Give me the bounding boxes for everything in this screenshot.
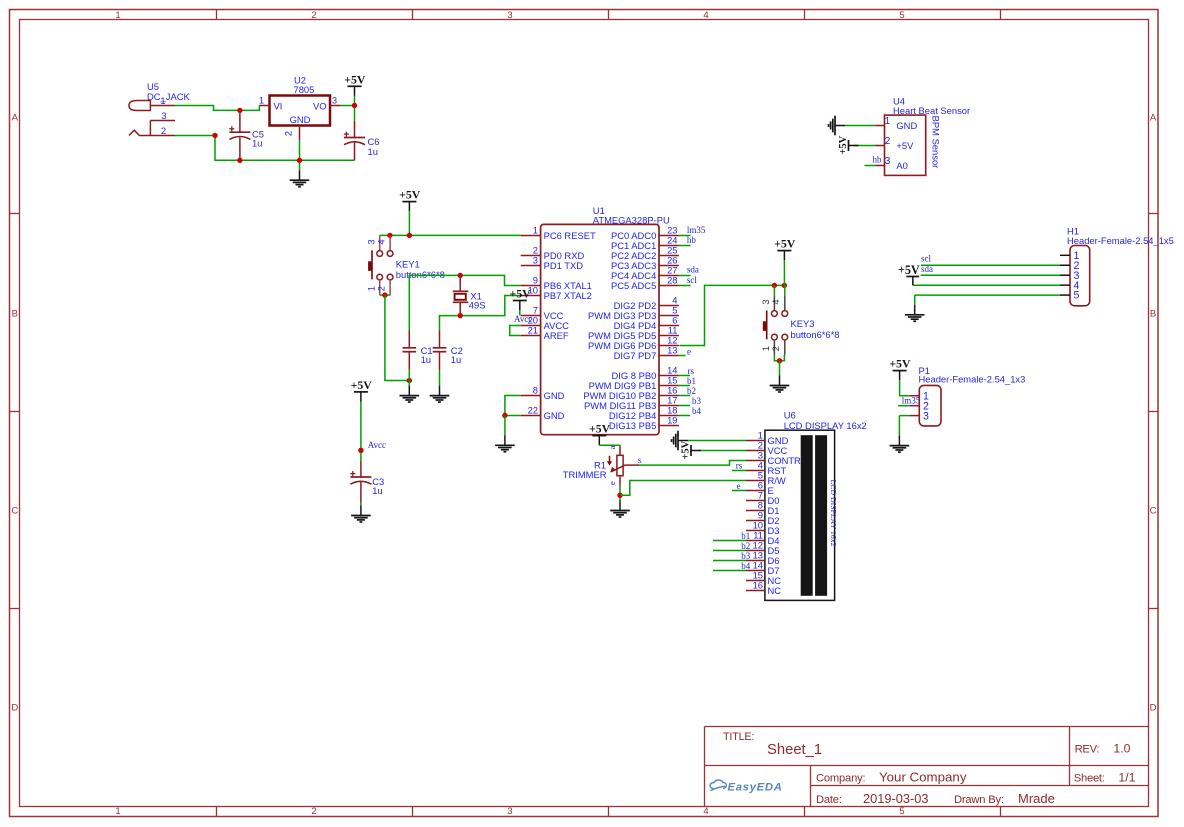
svg-text:lm35: lm35 xyxy=(687,225,706,235)
svg-text:b4: b4 xyxy=(692,406,702,416)
svg-text:+5V: +5V xyxy=(680,440,691,459)
svg-text:b4: b4 xyxy=(741,561,751,571)
svg-text:5: 5 xyxy=(1073,290,1079,302)
svg-text:5: 5 xyxy=(899,10,904,21)
svg-text:49S: 49S xyxy=(469,300,486,311)
svg-text:2: 2 xyxy=(311,10,316,21)
svg-text:sda: sda xyxy=(687,265,699,275)
svg-text:Mrade: Mrade xyxy=(1018,791,1055,806)
svg-text:13: 13 xyxy=(667,345,677,356)
svg-text:NC: NC xyxy=(768,585,782,596)
svg-text:hb: hb xyxy=(687,235,697,245)
svg-text:EasyEDA: EasyEDA xyxy=(728,782,783,794)
svg-text:button6*6*8: button6*6*8 xyxy=(791,329,840,340)
svg-text:e: e xyxy=(737,481,741,491)
svg-text:b2: b2 xyxy=(741,541,750,551)
svg-text:1u: 1u xyxy=(252,138,262,149)
svg-text:b1: b1 xyxy=(741,531,750,541)
svg-text:A: A xyxy=(12,113,19,124)
svg-text:b2: b2 xyxy=(687,386,696,396)
svg-text:3: 3 xyxy=(885,156,891,167)
svg-text:3: 3 xyxy=(507,10,512,21)
svg-text:LCD DISPLAY 16x2: LCD DISPLAY 16x2 xyxy=(829,479,838,546)
svg-text:3: 3 xyxy=(507,806,512,817)
svg-text:Header-Female-2.54_1x5: Header-Female-2.54_1x5 xyxy=(1067,235,1174,246)
svg-text:Drawn By:: Drawn By: xyxy=(954,794,1004,806)
svg-text:1.0: 1.0 xyxy=(1113,742,1130,756)
svg-text:+5V: +5V xyxy=(399,188,421,202)
svg-text:scl: scl xyxy=(921,254,931,264)
svg-text:Date:: Date: xyxy=(816,794,842,806)
svg-text:DIG13 PB5: DIG13 PB5 xyxy=(609,420,656,431)
svg-text:+5V: +5V xyxy=(510,287,532,301)
svg-text:1: 1 xyxy=(160,95,165,106)
svg-text:21: 21 xyxy=(528,325,538,336)
svg-text:C: C xyxy=(11,506,18,517)
svg-text:D: D xyxy=(11,703,18,714)
svg-text:22: 22 xyxy=(528,405,538,416)
svg-text:TRIMMER: TRIMMER xyxy=(563,469,607,480)
svg-text:1/1: 1/1 xyxy=(1118,771,1135,785)
svg-text:sda: sda xyxy=(921,264,933,274)
svg-text:U6: U6 xyxy=(784,409,796,420)
svg-text:GND: GND xyxy=(544,390,565,401)
svg-text:AREF: AREF xyxy=(544,330,569,341)
svg-text:19: 19 xyxy=(667,415,677,426)
svg-text:A0: A0 xyxy=(896,160,907,171)
svg-text:Sheet_1: Sheet_1 xyxy=(767,742,822,758)
svg-text:e: e xyxy=(607,481,617,485)
svg-text:4: 4 xyxy=(703,806,708,817)
svg-text:2: 2 xyxy=(161,125,166,136)
svg-text:+5V: +5V xyxy=(351,378,373,392)
svg-text:Header-Female-2.54_1x3: Header-Female-2.54_1x3 xyxy=(919,374,1026,385)
svg-text:KEY1: KEY1 xyxy=(396,258,420,269)
svg-text:GND: GND xyxy=(544,410,565,421)
svg-text:KEY3: KEY3 xyxy=(791,318,815,329)
svg-text:PC5 ADC5: PC5 ADC5 xyxy=(611,280,656,291)
svg-text:Avcc: Avcc xyxy=(368,440,386,450)
svg-text:PC6 RESET: PC6 RESET xyxy=(544,230,596,241)
svg-text:2: 2 xyxy=(885,136,891,147)
svg-text:B: B xyxy=(12,309,18,320)
svg-text:1: 1 xyxy=(259,95,264,106)
svg-text:2: 2 xyxy=(311,806,316,817)
svg-text:b3: b3 xyxy=(741,551,751,561)
svg-text:3: 3 xyxy=(161,110,166,121)
svg-text:TITLE:: TITLE: xyxy=(723,731,754,743)
svg-text:1: 1 xyxy=(115,806,120,817)
svg-text:VI: VI xyxy=(274,101,283,112)
svg-text:PD1 TXD: PD1 TXD xyxy=(544,260,584,271)
svg-text:GND: GND xyxy=(896,120,917,131)
svg-text:7805: 7805 xyxy=(294,84,315,95)
svg-text:3: 3 xyxy=(923,410,929,422)
svg-text:2019-03-03: 2019-03-03 xyxy=(863,791,928,806)
svg-text:1u: 1u xyxy=(372,485,382,496)
svg-text:scl: scl xyxy=(687,275,697,285)
svg-text:1: 1 xyxy=(885,116,891,127)
svg-text:DC_JACK: DC_JACK xyxy=(147,91,190,102)
svg-text:button6*6*8: button6*6*8 xyxy=(396,269,445,280)
svg-text:Heart Beat Sensor: Heart Beat Sensor xyxy=(893,105,970,116)
svg-text:PB7 XTAL2: PB7 XTAL2 xyxy=(544,290,592,301)
svg-text:e: e xyxy=(687,346,691,356)
svg-text:2: 2 xyxy=(770,346,781,351)
svg-text:2: 2 xyxy=(283,131,294,136)
svg-text:1u: 1u xyxy=(421,354,431,365)
svg-text:+5V: +5V xyxy=(589,422,611,436)
svg-text:b1: b1 xyxy=(687,376,696,386)
svg-text:+5V: +5V xyxy=(898,263,920,277)
svg-text:GND: GND xyxy=(290,114,311,125)
svg-text:1u: 1u xyxy=(451,354,461,365)
svg-text:Your Company: Your Company xyxy=(879,770,967,785)
svg-text:B: B xyxy=(1150,309,1156,320)
svg-text:1: 1 xyxy=(115,10,120,21)
svg-text:3: 3 xyxy=(332,95,337,106)
svg-text:DIG7 PD7: DIG7 PD7 xyxy=(614,350,657,361)
svg-text:8: 8 xyxy=(533,385,538,396)
svg-text:1u: 1u xyxy=(368,146,378,157)
svg-text:hb: hb xyxy=(873,155,883,165)
svg-text:b3: b3 xyxy=(692,396,702,406)
svg-text:rs: rs xyxy=(688,366,695,376)
svg-text:rs: rs xyxy=(736,460,743,470)
svg-text:LCD DISPLAY 16x2: LCD DISPLAY 16x2 xyxy=(784,420,867,431)
svg-text:+5V: +5V xyxy=(344,72,366,86)
svg-text:a: a xyxy=(607,445,617,449)
svg-text:ATMEGA328P-PU: ATMEGA328P-PU xyxy=(593,215,670,226)
svg-text:Avcc: Avcc xyxy=(514,314,532,324)
svg-text:5: 5 xyxy=(899,806,904,817)
svg-text:4: 4 xyxy=(770,299,781,304)
svg-text:s: s xyxy=(638,455,642,465)
svg-text:lm35: lm35 xyxy=(902,395,921,405)
svg-text:D: D xyxy=(1150,703,1157,714)
svg-text:28: 28 xyxy=(667,275,677,286)
svg-text:VO: VO xyxy=(313,101,327,112)
svg-text:+5V: +5V xyxy=(889,357,911,371)
svg-text:BPM Sensor: BPM Sensor xyxy=(931,116,942,169)
svg-text:A: A xyxy=(1150,113,1157,124)
svg-text:16: 16 xyxy=(753,580,763,591)
svg-text:Company:: Company: xyxy=(816,772,865,784)
svg-text:1: 1 xyxy=(533,225,538,236)
svg-text:+5V: +5V xyxy=(838,135,849,154)
svg-text:REV:: REV: xyxy=(1075,744,1100,756)
svg-text:+5V: +5V xyxy=(774,237,796,251)
svg-text:Sheet:: Sheet: xyxy=(1074,773,1105,785)
svg-text:4: 4 xyxy=(703,10,708,21)
svg-text:+5V: +5V xyxy=(896,140,914,151)
svg-text:3: 3 xyxy=(533,255,538,266)
svg-text:2: 2 xyxy=(376,286,387,291)
svg-text:C: C xyxy=(1150,506,1157,517)
svg-text:4: 4 xyxy=(376,239,387,244)
